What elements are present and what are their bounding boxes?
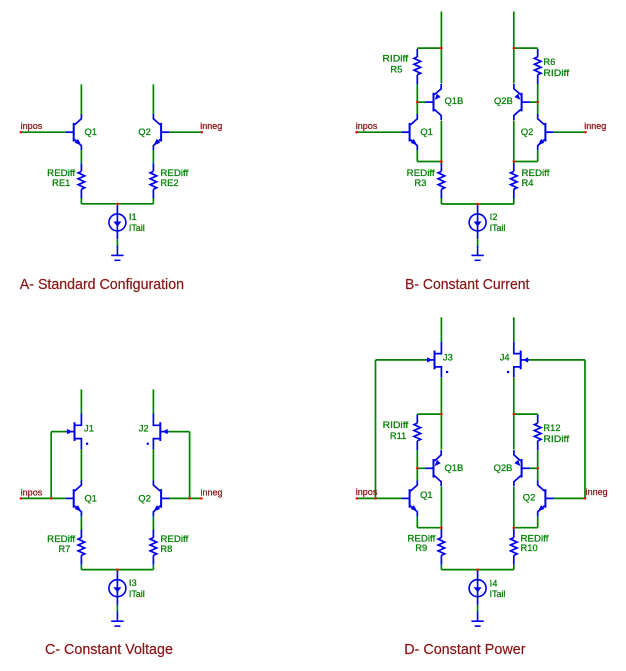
wire bottom rail (A) xyxy=(81,203,153,205)
node inneg (D) xyxy=(553,497,585,499)
wire Q1 emitter (B) xyxy=(416,151,418,162)
wire J2 drain (C) xyxy=(152,389,154,413)
node inpos (B) xyxy=(357,131,402,133)
JFET J4 xyxy=(507,342,529,378)
svg-text:inpos: inpos xyxy=(356,120,378,131)
junction dot xyxy=(476,203,479,206)
wire Q1 collector (B) xyxy=(416,102,418,114)
node inpos (A) xyxy=(21,131,66,133)
junction dot xyxy=(584,131,587,134)
node inpos (D) xyxy=(357,497,402,499)
wire J1 gate (C) xyxy=(51,431,66,433)
wire J3 source down (D) xyxy=(440,377,442,414)
junction dot xyxy=(200,497,203,500)
wire collector Q1 (A) xyxy=(80,84,82,114)
wire to R12 (D) xyxy=(514,413,538,415)
wire J4 source down (D) xyxy=(513,377,515,414)
wire R5 to junction (B) xyxy=(416,84,418,102)
junction dot xyxy=(356,497,359,500)
resistor R10 xyxy=(511,530,518,565)
wire R8 to rail (C) xyxy=(152,565,154,570)
wire Q1B collector down (B) xyxy=(440,121,442,162)
wire top rail right (B) xyxy=(513,12,515,49)
wire Q1 emitter (D) xyxy=(416,517,418,528)
wire I2 to ground (B) xyxy=(477,239,479,246)
wire collector Q2 (A) xyxy=(152,84,154,114)
wire R10 to rail (D) xyxy=(513,565,515,570)
svg-text:R12: R12 xyxy=(543,422,560,433)
wire J3 gate (D) xyxy=(376,359,427,361)
wire Q1 emitter to junction (D) xyxy=(417,527,441,529)
wire feedback right (C) xyxy=(189,432,191,499)
wire bottom rail (D) xyxy=(441,569,513,571)
wire J4 gate (D) xyxy=(529,359,585,361)
wire feedback left (C) xyxy=(50,432,52,499)
junction dot xyxy=(416,101,419,104)
svg-text:R3: R3 xyxy=(414,177,426,188)
transistor Q2 xyxy=(538,480,554,516)
svg-text:I4: I4 xyxy=(490,577,498,588)
resistor RE1 xyxy=(78,163,85,198)
svg-text:R7: R7 xyxy=(58,543,70,554)
junction dot xyxy=(536,467,539,470)
svg-text:I2: I2 xyxy=(490,211,498,222)
junction dot xyxy=(584,497,587,500)
wire bottom rail (C) xyxy=(81,569,153,571)
wire I4 to ground (D) xyxy=(477,605,479,612)
resistor R9 xyxy=(438,530,445,565)
junction dot xyxy=(513,413,516,416)
wire tail (B) xyxy=(477,204,479,206)
svg-text:ITail: ITail xyxy=(490,222,506,233)
svg-text:ITail: ITail xyxy=(129,588,145,599)
transistor Q1 xyxy=(66,480,82,516)
resistor R11 xyxy=(414,415,421,450)
JFET J3 xyxy=(426,342,448,378)
svg-text:I3: I3 xyxy=(129,577,137,588)
wire Q2 emitter (B) xyxy=(537,151,539,162)
transistor Q1 xyxy=(402,114,418,150)
junction dot xyxy=(440,526,443,529)
transistor Q2 xyxy=(538,114,554,150)
svg-text:R10: R10 xyxy=(521,542,538,553)
wire Q1 collector (D) xyxy=(416,468,418,480)
svg-text:C- Constant Voltage: C- Constant Voltage xyxy=(45,641,173,658)
junction dot xyxy=(50,497,53,500)
svg-text:R4: R4 xyxy=(522,177,534,188)
resistor RE2 xyxy=(150,163,157,198)
wire Q2B base (B) xyxy=(530,101,538,103)
wire tail (A) xyxy=(116,204,118,206)
svg-text:J1: J1 xyxy=(84,422,94,433)
wire bottom rail (B) xyxy=(441,203,513,205)
svg-text:Q2: Q2 xyxy=(138,126,151,137)
junction dot xyxy=(188,497,191,500)
svg-text:inneg: inneg xyxy=(584,120,606,131)
svg-text:inpos: inpos xyxy=(21,120,43,131)
wire Q1 emitter to junction (B) xyxy=(417,161,441,163)
resistor R3 xyxy=(438,163,445,198)
wire R3 to rail (B) xyxy=(440,199,442,204)
svg-text:inpos: inpos xyxy=(356,486,378,497)
junction dot xyxy=(201,131,204,134)
wire Q2 emitter to junction (B) xyxy=(514,161,538,163)
junction dot xyxy=(116,568,119,571)
resistor R12 xyxy=(534,415,541,450)
wire J4 drain (D) xyxy=(513,317,515,341)
node inneg (A) xyxy=(169,131,202,133)
svg-text:RE2: RE2 xyxy=(160,177,178,188)
wire Q2 collector (D) xyxy=(537,468,539,480)
wire emitter Q1 to RE1 (A) xyxy=(80,151,82,164)
svg-text:inneg: inneg xyxy=(201,486,223,497)
junction dot xyxy=(20,131,23,134)
svg-text:D- Constant Power: D- Constant Power xyxy=(404,641,525,658)
wire R11 top lead (D) xyxy=(416,413,418,416)
junction dot xyxy=(355,131,358,134)
wire Q2B collector down (D) xyxy=(513,487,515,528)
node inneg (B) xyxy=(553,131,585,133)
svg-text:Q2: Q2 xyxy=(523,492,536,503)
svg-text:Q1: Q1 xyxy=(420,126,433,137)
transistor Q1B xyxy=(426,450,442,486)
svg-text:RIDiff: RIDiff xyxy=(382,53,408,64)
junction dot xyxy=(513,47,516,50)
svg-text:RIDiff: RIDiff xyxy=(543,433,569,444)
wire tail (C) xyxy=(116,570,118,572)
svg-text:J4: J4 xyxy=(500,352,510,363)
wire Q2 emitter (D) xyxy=(537,517,539,528)
wire R11 to junction (D) xyxy=(416,450,418,468)
current source I4 xyxy=(469,571,486,605)
svg-text:R9: R9 xyxy=(415,542,427,553)
svg-text:Q1: Q1 xyxy=(85,126,98,137)
wire Q2 emitter to junction (D) xyxy=(514,527,538,529)
junction dot xyxy=(20,497,23,500)
wire emitter Q1 to R7 (C) xyxy=(80,517,82,530)
wire R7 to rail (C) xyxy=(80,565,82,570)
junction dot xyxy=(513,160,516,163)
ground xyxy=(471,246,483,261)
transistor Q2 xyxy=(153,480,169,516)
wire I3 to ground (C) xyxy=(116,605,118,612)
wire R12 top lead (D) xyxy=(537,413,539,416)
svg-text:inneg: inneg xyxy=(200,120,222,131)
svg-text:ITail: ITail xyxy=(490,588,506,599)
svg-text:ITail: ITail xyxy=(129,222,145,233)
wire rail to Q1B emitter (D) xyxy=(440,414,442,449)
svg-text:R5: R5 xyxy=(390,63,402,74)
ground xyxy=(471,612,483,627)
svg-text:Q1: Q1 xyxy=(420,489,433,500)
wire Q1B collector down (D) xyxy=(440,487,442,528)
current source I1 xyxy=(109,205,126,239)
junction dot xyxy=(416,467,419,470)
wire R9 top lead (D) xyxy=(440,528,442,530)
wire emitter Q2 to R8 (C) xyxy=(152,517,154,530)
wire R9 to rail (D) xyxy=(440,565,442,570)
wire RE1 to rail (A) xyxy=(80,199,82,204)
wire Q1B base (B) xyxy=(417,101,425,103)
wire R3 top lead join (B) xyxy=(440,162,442,165)
node inpos (C) xyxy=(21,497,66,499)
wire emitter Q2 to RE2 (A) xyxy=(152,151,154,164)
svg-text:Q1B: Q1B xyxy=(445,95,464,106)
svg-text:B- Constant Current: B- Constant Current xyxy=(405,276,530,293)
wire I1 to ground (A) xyxy=(116,239,118,246)
wire J1 source to Q1 collector (C) xyxy=(80,449,82,480)
transistor Q1 xyxy=(402,480,418,516)
svg-text:inpos: inpos xyxy=(21,486,43,497)
wire rail to Q1B emitter (B) xyxy=(440,48,442,83)
svg-text:Q2B: Q2B xyxy=(494,95,513,106)
junction dot xyxy=(440,47,443,50)
junction dot xyxy=(440,160,443,163)
svg-text:Q1: Q1 xyxy=(85,493,98,504)
transistor Q2 xyxy=(153,114,169,150)
wire R12 to junction (D) xyxy=(537,450,539,468)
wire J2 source to Q2 collector (C) xyxy=(152,449,154,480)
junction dot xyxy=(476,568,479,571)
ground xyxy=(111,612,123,627)
wire R4 to rail (B) xyxy=(513,199,515,204)
current source I2 xyxy=(469,205,486,239)
resistor R8 xyxy=(150,530,157,565)
JFET J2 xyxy=(147,413,169,449)
wire J2 gate (C) xyxy=(169,431,190,433)
wire rail to Q2B emitter (B) xyxy=(513,48,515,83)
junction dot xyxy=(536,101,539,104)
transistor Q2B xyxy=(514,450,530,486)
wire feedback right (D) xyxy=(584,360,586,499)
svg-text:inneg: inneg xyxy=(586,486,608,497)
wire R4 top lead join (B) xyxy=(513,162,515,165)
transistor Q1 xyxy=(66,114,82,150)
wire to R6 (B) xyxy=(514,47,538,49)
resistor R6 xyxy=(534,49,541,84)
svg-text:I1: I1 xyxy=(129,211,137,222)
current source I3 xyxy=(109,571,126,605)
svg-text:RIDiff: RIDiff xyxy=(543,67,569,78)
junction dot xyxy=(116,203,119,206)
wire R10 top lead (D) xyxy=(513,528,515,530)
svg-text:RIDiff: RIDiff xyxy=(383,419,409,430)
ground xyxy=(111,246,123,261)
wire J1 drain (C) xyxy=(80,389,82,413)
svg-text:J3: J3 xyxy=(443,352,453,363)
wire top rail left (B) xyxy=(440,12,442,49)
wire Q1B base (D) xyxy=(417,467,425,469)
transistor Q1B xyxy=(426,84,442,120)
wire rail to Q2B emitter (D) xyxy=(513,414,515,449)
wire RE2 to rail (A) xyxy=(152,199,154,204)
resistor R4 xyxy=(511,163,518,198)
wire to R5 (B) xyxy=(417,47,441,49)
svg-text:R6: R6 xyxy=(543,56,555,67)
wire Q2B collector down (B) xyxy=(513,121,515,162)
wire tail (D) xyxy=(477,570,479,572)
svg-text:R8: R8 xyxy=(160,543,172,554)
wire feedback left (D) xyxy=(375,360,377,499)
svg-text:A- Standard Configuration: A- Standard Configuration xyxy=(20,276,184,293)
resistor R7 xyxy=(78,530,85,565)
svg-text:Q2B: Q2B xyxy=(494,462,513,473)
svg-text:Q1B: Q1B xyxy=(445,462,464,473)
svg-text:Q2: Q2 xyxy=(521,126,534,137)
wire R6 to junction (B) xyxy=(537,84,539,102)
node inneg (C) xyxy=(169,497,202,499)
svg-text:Q2: Q2 xyxy=(138,493,151,504)
svg-text:R11: R11 xyxy=(390,430,407,441)
transistor Q2B xyxy=(514,84,530,120)
wire to R11 (D) xyxy=(417,413,441,415)
JFET J1 xyxy=(66,413,88,449)
wire Q2B base (D) xyxy=(530,467,538,469)
junction dot xyxy=(513,526,516,529)
svg-text:J2: J2 xyxy=(139,422,149,433)
wire J3 drain (D) xyxy=(440,317,442,341)
resistor R5 xyxy=(414,49,421,84)
wire Q2 collector (B) xyxy=(537,102,539,114)
junction dot xyxy=(374,497,377,500)
svg-text:RE1: RE1 xyxy=(52,177,70,188)
junction dot xyxy=(440,413,443,416)
